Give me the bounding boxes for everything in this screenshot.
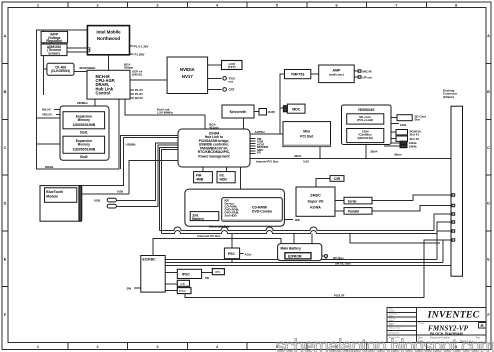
svg-text:Power management: Power management — [198, 155, 230, 159]
svg-text:Module: Module — [46, 195, 58, 199]
svg-text:Kinnereth: Kinnereth — [230, 110, 247, 114]
svg-text:HP out: HP out — [363, 76, 372, 80]
svg-text:C: C — [4, 146, 7, 150]
svg-text:PSC: PSC — [228, 252, 236, 256]
svg-text:Northwood: Northwood — [97, 36, 120, 41]
svg-text:Selectable Bay: Selectable Bay — [209, 225, 230, 229]
svg-text:3.3V: 3.3V — [303, 160, 309, 164]
svg-text:Release date: Release date — [389, 327, 402, 330]
svg-text:PS/2: PS/2 — [179, 289, 186, 293]
svg-text:SW: SW — [127, 287, 132, 291]
svg-text:Serial: Serial — [348, 199, 357, 203]
svg-text:KB: KB — [181, 282, 185, 286]
svg-text:RTC/KBC/DMA2/PIC,: RTC/KBC/DMA2/PIC, — [198, 150, 231, 154]
svg-text:Slot1: Slot1 — [80, 131, 88, 135]
svg-text:Internal LPC Bus: Internal LPC Bus — [197, 234, 221, 238]
svg-text:E: E — [487, 257, 490, 261]
svg-text:B2.5V: B2.5V — [135, 96, 143, 100]
svg-text:EC/KBC: EC/KBC — [143, 258, 157, 262]
svg-text:BlueTooth: BlueTooth — [46, 190, 63, 194]
svg-text:B: B — [4, 90, 7, 94]
svg-text:MIC IN: MIC IN — [363, 70, 372, 74]
svg-text:MDC: MDC — [292, 108, 301, 112]
svg-text:PS: PS — [257, 151, 261, 155]
svg-text:E2PROM: E2PROM — [288, 255, 302, 259]
svg-text:3: 3 — [156, 3, 158, 7]
svg-text:I2C Bus: I2C Bus — [333, 256, 344, 260]
svg-text:PCI Slot: PCI Slot — [300, 135, 314, 139]
svg-text:IDE: IDE — [295, 218, 300, 222]
svg-text:USB: USB — [94, 199, 100, 203]
svg-text:Main Battery: Main Battery — [281, 247, 301, 251]
svg-text:TITLE: TITLE — [418, 323, 424, 325]
svg-text:Date:: Date: — [389, 319, 394, 322]
svg-text:2: 2 — [97, 345, 99, 349]
svg-text:Intel Mobile: Intel Mobile — [96, 30, 121, 35]
svg-text:1: 1 — [37, 345, 39, 349]
svg-text:2: 2 — [97, 3, 99, 7]
svg-text:RJ45: RJ45 — [268, 110, 275, 114]
svg-text:(2X/1X): (2X/1X) — [132, 73, 142, 77]
svg-text:(240pin): (240pin) — [443, 95, 454, 99]
svg-text:PD: PD — [205, 276, 209, 280]
svg-text:IPS: IPS — [215, 270, 220, 274]
svg-text:4MB: 4MB — [196, 178, 204, 182]
svg-text:Slot2: Slot2 — [80, 155, 88, 159]
svg-text:30pin: 30pin — [394, 153, 402, 157]
svg-text:ACPI/in: ACPI/in — [255, 130, 266, 134]
svg-text:5: 5 — [276, 3, 278, 7]
svg-text:C: C — [487, 146, 490, 150]
svg-text:INVENTEC: INVENTEC — [427, 310, 480, 321]
svg-text:E: E — [4, 257, 7, 261]
svg-text:421pin: 421pin — [209, 126, 218, 130]
svg-text:SM I2C Bus: SM I2C Bus — [335, 262, 351, 266]
svg-text:CIR: CIR — [334, 177, 341, 181]
svg-text:SMSC: SMSC — [310, 194, 321, 198]
svg-text:128/256/512MB: 128/256/512MB — [72, 123, 95, 127]
svg-text:W2.5V: W2.5V — [42, 108, 51, 112]
svg-text:Slot: Slot — [415, 118, 420, 122]
svg-text:1: 1 — [37, 3, 39, 7]
svg-text:YEBISU3S: YEBISU3S — [358, 108, 376, 112]
svg-text:Regulator): Regulator) — [46, 39, 62, 43]
svg-text:32b/4: 32b/4 — [370, 150, 378, 154]
svg-text:out: out — [229, 80, 234, 84]
svg-text:(CLKGEN04): (CLKGEN04) — [51, 69, 70, 73]
svg-text:NVIDIA: NVIDIA — [180, 67, 196, 72]
svg-text:A: A — [487, 34, 490, 38]
svg-text:(NOVA100): (NOVA100) — [357, 136, 372, 140]
svg-text:2nd HDD: 2nd HDD — [225, 214, 237, 218]
svg-text:Parallel: Parallel — [348, 210, 359, 214]
svg-text:Mini: Mini — [303, 130, 310, 134]
svg-text:B: B — [487, 90, 490, 94]
svg-text:(PCI-cont2): (PCI-cont2) — [357, 118, 373, 122]
svg-text:sensor): sensor) — [48, 51, 60, 55]
svg-text:A: A — [4, 34, 7, 38]
svg-text:Date:: Date: — [389, 315, 394, 318]
svg-text:Internal PCI Bus: Internal PCI Bus — [256, 160, 279, 164]
svg-text:128/256/512MB: 128/256/512MB — [72, 148, 95, 152]
svg-text:DVD-Combo: DVD-Combo — [252, 210, 272, 214]
svg-text:Date:: Date: — [389, 324, 394, 327]
svg-text:1.5V 66MHz: 1.5V 66MHz — [157, 111, 173, 115]
svg-text:Super I/O: Super I/O — [308, 200, 324, 204]
svg-text:USB/Bt: USB/Bt — [126, 143, 136, 147]
svg-text:Region:: Region: — [389, 311, 396, 313]
svg-text:32b/4: 32b/4 — [294, 154, 302, 158]
svg-text:P1.2BV: P1.2BV — [135, 53, 145, 57]
svg-text:7: 7 — [395, 3, 397, 7]
svg-text:DRAB: DRAB — [45, 165, 53, 169]
svg-text:1394b: 1394b — [409, 145, 417, 149]
svg-text:D: D — [487, 202, 490, 206]
svg-text:NV17: NV17 — [182, 74, 194, 79]
svg-text:YMF753: YMF753 — [291, 73, 305, 77]
svg-text:CRT: CRT — [229, 88, 235, 92]
svg-text:schemalaptop.blogspot.com: schemalaptop.blogspot.com — [276, 335, 494, 352]
svg-text:(TFT): (TFT) — [228, 65, 236, 69]
svg-text:3: 3 — [156, 345, 158, 349]
svg-text:USB: USB — [117, 190, 123, 194]
svg-text:VR2.5V: VR2.5V — [42, 113, 52, 117]
svg-text:D: D — [4, 202, 7, 206]
svg-text:Control: Control — [96, 91, 111, 96]
svg-text:6: 6 — [336, 3, 338, 7]
svg-text:Memory: Memory — [78, 142, 90, 146]
svg-text:KONA: KONA — [310, 206, 321, 210]
svg-text:266MHz: 266MHz — [77, 101, 88, 105]
svg-text:400/533MHz: 400/533MHz — [79, 66, 96, 70]
svg-text:ACin: ACin — [245, 252, 252, 256]
svg-text:P1.0-1.30V: P1.0-1.30V — [134, 45, 149, 49]
svg-text:HDD: HDD — [220, 178, 228, 182]
svg-text:(mid/sum.): (mid/sum.) — [329, 73, 344, 77]
svg-text:1394: 1394 — [400, 123, 407, 127]
svg-text:Battery: Battery — [192, 217, 204, 221]
svg-text:PS/2 I/F: PS/2 I/F — [334, 293, 345, 297]
svg-text:8: 8 — [455, 3, 457, 7]
svg-text:IPSC: IPSC — [182, 273, 190, 277]
svg-text:Memory: Memory — [78, 118, 90, 122]
